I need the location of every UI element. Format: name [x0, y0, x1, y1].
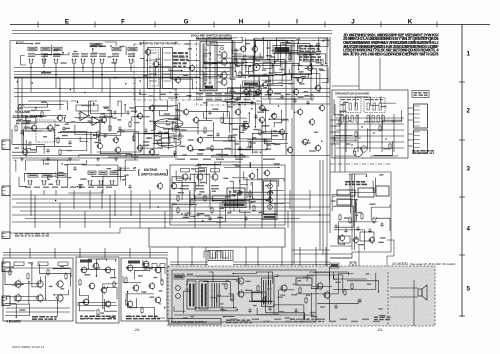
junction [62, 52, 63, 53]
capacitor C39 [118, 166, 121, 171]
wire [126, 294, 154, 301]
small circle [220, 47, 223, 50]
wire [247, 134, 286, 139]
value label [71, 121, 76, 122]
value label [101, 122, 106, 123]
function board outline [170, 165, 285, 225]
transistor Q45 [35, 279, 43, 288]
wire [126, 301, 129, 305]
speaker symbol [418, 285, 427, 300]
value label [45, 163, 49, 164]
inner box 2 [263, 63, 272, 69]
wire [126, 154, 159, 157]
value label [124, 175, 129, 176]
value label [263, 159, 275, 160]
wire [408, 119, 414, 121]
wire [61, 132, 91, 154]
wire [172, 122, 213, 131]
value label [296, 39, 300, 40]
wire [347, 281, 379, 292]
value label [272, 135, 278, 136]
svg-text:2: 2 [467, 107, 471, 114]
value label [96, 164, 100, 165]
capacitor C19 [68, 140, 71, 145]
value label [155, 140, 162, 141]
wire [336, 123, 404, 125]
junction [135, 167, 136, 168]
value label [222, 283, 227, 284]
capacitor C43 [208, 216, 211, 221]
value label [225, 93, 232, 94]
text RY602 [365, 99, 383, 100]
transistor Q78 [100, 116, 107, 124]
wire [14, 71, 230, 73]
junction [325, 63, 326, 64]
svg-text:3: 3 [467, 165, 471, 172]
capacitor C30 [263, 138, 266, 143]
value label [183, 75, 188, 76]
resistor R28 [204, 195, 206, 203]
transistor Q73 [242, 122, 249, 130]
value label [274, 319, 281, 320]
transistor Q11 [296, 76, 303, 84]
wire [230, 84, 240, 99]
wire [326, 37, 328, 270]
value label [106, 187, 112, 188]
junction [257, 169, 258, 170]
wire [408, 113, 414, 115]
wire [229, 190, 231, 209]
junction [77, 102, 78, 103]
main board right edge [329, 37, 331, 233]
wire [266, 191, 284, 201]
junction [127, 291, 128, 292]
op-amp IC101a [78, 112, 90, 121]
svg-text:MUTING: MUTING [144, 168, 158, 172]
wire [193, 149, 222, 157]
transistor Q80 [30, 124, 37, 132]
switch contact [205, 67, 208, 69]
value label [142, 291, 147, 292]
value label [206, 147, 210, 148]
wire [245, 247, 247, 266]
value label [274, 163, 280, 164]
junction [366, 176, 367, 177]
wire [149, 190, 151, 209]
wire [131, 155, 174, 157]
wire [54, 53, 63, 55]
ground [46, 157, 50, 161]
value label [198, 213, 204, 214]
wire [204, 54, 217, 76]
value label [154, 277, 158, 278]
capacitor C37 [73, 166, 76, 171]
wire [125, 46, 127, 55]
wire [337, 97, 379, 106]
wire [79, 288, 88, 304]
wire [233, 40, 242, 54]
wire [54, 269, 71, 277]
value label [233, 307, 237, 308]
junction [223, 316, 224, 317]
svg-text:K: K [408, 19, 413, 26]
value label [227, 106, 233, 107]
wire [214, 122, 234, 141]
junction [230, 210, 231, 211]
value label [207, 86, 211, 87]
value label [379, 315, 386, 316]
capacitor C49 [380, 222, 383, 227]
switch wafer S202 [157, 138, 181, 148]
wire [223, 100, 238, 102]
value label [304, 91, 308, 92]
transistor Q28 [258, 116, 265, 124]
wire [48, 176, 57, 179]
relay contact resistor [355, 103, 357, 110]
wire [224, 148, 230, 150]
resistor R20 [221, 117, 223, 125]
wire [408, 139, 414, 141]
transistor Q2 [219, 57, 227, 66]
value label [223, 309, 227, 310]
switch contact 2 [209, 76, 212, 78]
wire [212, 156, 250, 157]
wire [274, 305, 304, 318]
connector CN50 [2, 296, 10, 306]
value label [272, 114, 276, 115]
junction [149, 88, 150, 89]
value label [128, 53, 135, 54]
value label [255, 93, 262, 94]
junction [202, 220, 203, 221]
transistor Q51 [104, 266, 111, 275]
junction [361, 126, 362, 127]
wire [97, 146, 141, 152]
resistor strip [346, 116, 348, 123]
wire [219, 203, 221, 228]
value label [318, 319, 325, 320]
dashed block [36, 120, 55, 142]
value label [54, 49, 59, 50]
resistor R22 [243, 123, 245, 131]
wire [139, 42, 141, 44]
wire [153, 136, 184, 144]
value label [168, 106, 174, 107]
value label [266, 144, 270, 145]
transistor Q69 [152, 60, 159, 68]
capacitor C32 [41, 180, 47, 185]
value label [240, 132, 244, 133]
value label [166, 124, 170, 125]
value label [362, 319, 369, 320]
value label [52, 187, 58, 188]
wire [29, 248, 31, 258]
value label [203, 159, 211, 160]
resistor R51 [231, 295, 233, 303]
wire [92, 176, 126, 185]
wire [314, 272, 330, 280]
value label [150, 297, 155, 298]
wire [172, 182, 196, 191]
wire [153, 66, 155, 155]
ruler tick [94, 22, 96, 28]
wire [296, 73, 309, 78]
wire [330, 125, 340, 127]
value label [7, 271, 13, 272]
value label [196, 188, 204, 189]
value label [79, 187, 85, 188]
wire [245, 77, 259, 94]
value label [230, 298, 234, 299]
resistor R32 [339, 214, 341, 222]
value label [259, 212, 265, 213]
wire [333, 273, 376, 290]
junction [164, 307, 165, 308]
wire [217, 54, 220, 56]
head amp bottom box 2 [338, 236, 350, 243]
svg-text:VOLUME: VOLUME [15, 110, 31, 114]
value label [61, 288, 65, 289]
top ruler line [10, 24, 490, 26]
value label [64, 164, 68, 165]
junction [146, 60, 147, 61]
capacitor C23 [126, 110, 129, 115]
transistor Q56 [126, 264, 133, 273]
value label [304, 142, 310, 143]
junction [316, 86, 317, 87]
junction [107, 110, 108, 111]
transformer winding bars [212, 283, 219, 307]
wire [333, 276, 367, 280]
junction [351, 144, 352, 145]
capacitor C38 [78, 184, 81, 189]
capacitor C45 [334, 224, 337, 229]
wire [224, 162, 250, 168]
head amp vertical pair 2 [354, 174, 356, 250]
resistor R50 [225, 283, 227, 291]
junction [126, 267, 127, 268]
svg-text:SWITCH BOARD: SWITCH BOARD [141, 173, 167, 177]
transistor Q43 [13, 279, 21, 288]
wire [269, 190, 271, 209]
wire [281, 247, 283, 266]
capacitor C52 [268, 306, 271, 311]
value label [189, 150, 193, 151]
transistor Q58 [154, 266, 161, 275]
value label [18, 119, 22, 120]
resistor strip [356, 116, 358, 123]
capacitor C9 [128, 59, 134, 64]
capacitor C47 [356, 226, 359, 231]
wire [309, 190, 311, 209]
value label [118, 131, 124, 132]
value label [309, 150, 316, 151]
wire [282, 120, 287, 121]
value label [297, 280, 301, 281]
junction [303, 78, 304, 79]
value label [242, 129, 246, 130]
junction [170, 78, 171, 79]
wire [107, 288, 117, 300]
junction [239, 190, 240, 191]
value label [18, 283, 22, 284]
wire [204, 72, 221, 77]
connector CN20 [2, 186, 10, 196]
capacitor C53 [294, 308, 297, 313]
wire [109, 78, 111, 130]
transistor Q13 [314, 84, 321, 92]
svg-text:PULSE POWER SUPPLY: PULSE POWER SUPPLY [171, 320, 208, 324]
label text [91, 44, 101, 46]
value label [233, 134, 237, 135]
junction [269, 119, 270, 120]
junction [107, 287, 108, 288]
wire [257, 301, 274, 315]
text RY601 [341, 99, 359, 100]
wire [129, 248, 131, 258]
wire [233, 264, 330, 266]
resistor R49 [141, 307, 143, 315]
value label [203, 102, 208, 103]
wire [21, 56, 26, 66]
junction [31, 264, 32, 265]
value label [265, 94, 272, 95]
wire [230, 181, 240, 190]
value label [260, 133, 265, 134]
capacitor C5 [80, 59, 86, 64]
wire [5, 267, 24, 285]
wire [311, 293, 318, 317]
connector CN30 [2, 232, 10, 238]
value label [225, 96, 232, 97]
wire [134, 133, 169, 141]
wire [123, 276, 141, 283]
value label [265, 185, 271, 186]
wire [190, 174, 210, 196]
wire [26, 115, 65, 122]
wire [197, 120, 212, 133]
wire [319, 160, 321, 250]
resistor R5 [321, 59, 323, 67]
wire [194, 195, 196, 228]
value label [195, 165, 201, 166]
value label [216, 222, 222, 223]
wire [251, 183, 253, 199]
wire [10, 282, 29, 304]
junction [310, 77, 311, 78]
wire [54, 290, 68, 295]
text psu sub3 [374, 317, 391, 321]
wire [332, 85, 359, 87]
resistor R41 [27, 273, 29, 281]
wire [127, 268, 165, 274]
value label [235, 159, 243, 160]
value label [268, 194, 272, 195]
value label [176, 110, 183, 111]
wire [235, 54, 244, 71]
junction [376, 218, 377, 219]
value label [307, 321, 314, 322]
value label [262, 306, 266, 307]
wire [84, 211, 86, 228]
wire [204, 54, 210, 57]
wire [217, 61, 220, 63]
wire [100, 151, 131, 157]
transistor Q14 [292, 88, 299, 96]
wire [330, 137, 340, 139]
capacitor C3 [53, 59, 59, 64]
transistor Q55 [104, 300, 111, 309]
wire [250, 300, 272, 302]
wire [194, 187, 235, 200]
value label [103, 176, 109, 177]
resistor R36 [339, 119, 341, 127]
transistor Q1 [219, 50, 227, 59]
wire [190, 192, 195, 217]
transistor Q67 [323, 291, 331, 300]
capacitor C6 [90, 59, 96, 64]
junction [53, 294, 54, 295]
cap label box [14, 262, 24, 266]
wire [206, 101, 227, 120]
wire [336, 141, 404, 143]
value label [379, 308, 383, 309]
junction [373, 132, 374, 133]
DIN connector block [264, 181, 278, 214]
wire [174, 306, 185, 311]
transistor Q22 [192, 116, 199, 124]
wire [159, 303, 161, 306]
junction [195, 307, 196, 308]
value label [110, 277, 116, 278]
transistor Q16 [46, 124, 53, 132]
junction [12, 266, 13, 267]
ruler tick [380, 22, 382, 28]
pulse waveform glyph [204, 251, 228, 258]
value label [223, 178, 228, 179]
wire [293, 118, 295, 264]
text waveform label [206, 247, 220, 248]
wire [151, 106, 178, 130]
wire [25, 141, 28, 157]
wire [93, 49, 99, 53]
wire [276, 73, 311, 75]
wire [336, 129, 404, 131]
wire [330, 245, 352, 247]
wire [315, 247, 317, 266]
value label [186, 289, 190, 290]
value label [251, 201, 256, 202]
junction [111, 116, 112, 117]
resistor R45 [113, 281, 115, 289]
wire [236, 48, 280, 65]
wire [298, 45, 311, 77]
junction [349, 120, 350, 121]
wire [239, 125, 271, 138]
value label [239, 154, 243, 155]
value label [205, 215, 210, 216]
resistor R46 [97, 309, 99, 317]
switch label [56, 174, 66, 178]
text parts list [299, 45, 321, 61]
value label [100, 313, 104, 314]
value label [252, 137, 256, 138]
value label [225, 196, 230, 197]
transistor Q19 [136, 112, 143, 120]
value label [344, 217, 349, 218]
value label [111, 62, 116, 63]
value label [134, 122, 140, 123]
